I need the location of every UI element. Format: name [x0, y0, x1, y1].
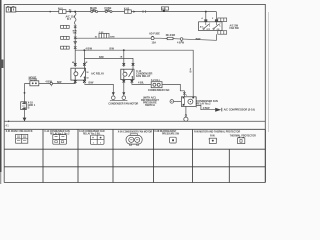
relay1 pin marks	[74, 63, 86, 65]
junction dot	[123, 49, 125, 51]
relay1 bottom pin marks	[74, 80, 86, 82]
junction dot	[83, 49, 85, 51]
cell5 connector	[170, 137, 177, 143]
svg-text:4 B/L: 4 B/L	[138, 82, 145, 85]
svg-text:B-Y: B-Y	[67, 18, 72, 21]
frame border	[4, 4, 265, 182]
cell2 connector	[53, 135, 67, 145]
svg-text:4 B-W: 4 B-W	[177, 42, 185, 45]
connector X-02	[161, 7, 168, 10]
svg-text:SWITCH: SWITCH	[145, 104, 155, 107]
svg-text:A/C: A/C	[200, 25, 204, 28]
svg-text:FAN SW: FAN SW	[230, 27, 240, 30]
wire branch y58	[84, 58, 133, 69]
svg-text:CONDENSER FAN: CONDENSER FAN	[148, 89, 170, 92]
svg-text:100A: 100A	[90, 9, 96, 12]
svg-text:30A: 30A	[105, 9, 110, 12]
connector table	[4, 129, 265, 182]
relay2 bottom pin marks	[123, 80, 134, 82]
svg-text:B: B	[190, 70, 192, 73]
fuse F1	[91, 10, 98, 13]
svg-text:PRESSURE SW: PRESSURE SW	[162, 134, 180, 136]
svg-text:X-01 MAIN FUSE BLOCK: X-01 MAIN FUSE BLOCK	[6, 130, 33, 133]
svg-text:A/C COMPRESSOR (2-19): A/C COMPRESSOR (2-19)	[224, 107, 255, 111]
noise filter	[30, 81, 39, 86]
svg-text:A/C RELAY: A/C RELAY	[91, 72, 104, 75]
svg-text:AD FUSE: AD FUSE	[149, 33, 160, 36]
scan dark left edge	[0, 0, 2, 172]
wire relay2 right to pressure	[132, 80, 185, 97]
wire branch y50	[75, 50, 193, 97]
svg-text:4 B/W: 4 B/W	[86, 47, 93, 50]
connector J1	[61, 25, 77, 28]
svg-text:B/W: B/W	[89, 82, 94, 85]
left terminal circle	[170, 100, 174, 104]
wire chain vertical	[74, 24, 76, 67]
svg-text:X-21 B-L: X-21 B-L	[151, 80, 161, 82]
cell6 icon fan	[209, 138, 218, 143]
fuse F2	[105, 10, 112, 13]
svg-text:FAN: FAN	[210, 135, 215, 138]
motor bracket	[110, 99, 127, 102]
svg-text:B/W: B/W	[99, 56, 104, 59]
motor arrow 1	[112, 92, 115, 95]
switch bottom pin	[216, 34, 218, 40]
svg-text:5 03: 5 03	[162, 9, 166, 11]
joint connector	[180, 38, 183, 41]
svg-text:X-01: X-01	[124, 6, 130, 10]
connector B-01	[59, 10, 66, 14]
harness arrow	[133, 11, 136, 13]
fuse symbol	[166, 37, 175, 39]
breaker symbol	[151, 36, 154, 40]
junction dot	[69, 11, 71, 13]
switch connector strips	[218, 18, 227, 34]
wire pressure to compressor	[196, 105, 215, 109]
junction dot	[49, 11, 51, 13]
connector C-03	[99, 33, 109, 38]
svg-text:B: B	[28, 107, 30, 110]
svg-text:X-06 CONDENSER FAN MOTOR: X-06 CONDENSER FAN MOTOR	[118, 130, 153, 133]
scan right edge faint	[267, 12, 270, 132]
svg-text:15A: 15A	[152, 42, 157, 45]
wire label B-W	[74, 42, 77, 44]
svg-text:1 4 1: 1 4 1	[4, 125, 10, 128]
cell6 icon protector	[238, 137, 245, 143]
svg-text:4 B/W: 4 B/W	[45, 81, 52, 84]
connector tab top-left	[6, 7, 16, 12]
connector X-01	[125, 10, 132, 13]
scan edge blob	[0, 60, 3, 69]
wire relay1 to filter	[25, 80, 76, 121]
motor terminal 1	[112, 96, 116, 100]
small ring	[185, 115, 187, 117]
cell4 connector	[126, 134, 142, 145]
inline connector	[151, 82, 162, 88]
wire relay2 left pin	[123, 50, 125, 67]
wire main B+ top	[16, 11, 216, 13]
fusible link	[74, 12, 76, 24]
ground connector	[21, 102, 27, 110]
cell1 connector	[16, 134, 28, 143]
wire relay1 to motor	[85, 83, 114, 92]
svg-text:B/W: B/W	[196, 38, 201, 41]
pressure pin marks	[183, 92, 186, 94]
wire pressure to ground	[185, 106, 187, 117]
svg-text:FAN RELAY: FAN RELAY	[136, 74, 151, 78]
fan switch box	[199, 22, 222, 31]
pin squares	[205, 20, 218, 22]
relay U2 condenser fan relay	[121, 69, 134, 79]
svg-text:CONDENSER FAN MOTOR: CONDENSER FAN MOTOR	[108, 103, 138, 106]
ground ring	[184, 117, 188, 121]
cell3 connector	[90, 135, 104, 144]
svg-text:FILTER: FILTER	[29, 79, 38, 82]
ground bus	[8, 121, 10, 123]
continuation arrow	[215, 108, 221, 112]
junction dot	[205, 11, 207, 13]
relay2 pin marks	[123, 63, 135, 65]
svg-text:15A: 15A	[73, 32, 77, 35]
joint connector	[50, 82, 52, 84]
svg-text:FAN MOTOR AND THERMAL PROTECTO: FAN MOTOR AND THERMAL PROTECTOR	[194, 130, 240, 133]
svg-text:DE-ICER: DE-ICER	[166, 35, 176, 37]
ground arrow	[23, 118, 27, 122]
wire relay1 right pin	[83, 50, 85, 68]
junction dot	[24, 92, 26, 94]
connector J2	[61, 36, 77, 39]
pressure switch	[181, 97, 196, 107]
motor terminal 2	[122, 96, 126, 100]
connector J3	[61, 46, 77, 49]
relay U1 A/C relay	[71, 68, 86, 80]
motor arrow 2	[122, 92, 125, 95]
wire branch y38	[75, 38, 216, 40]
wire relay2 to motor	[123, 80, 125, 93]
svg-text:B-01: B-01	[58, 8, 63, 10]
big box top pins	[206, 12, 217, 20]
svg-text:RELAY No.2: RELAY No.2	[196, 102, 211, 105]
junction dot	[74, 11, 76, 13]
svg-text:4 B/W: 4 B/W	[203, 107, 211, 110]
